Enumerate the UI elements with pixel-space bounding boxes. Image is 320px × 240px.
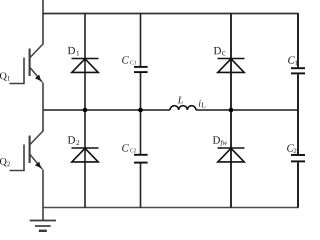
wire: middle rail left segment [43,109,171,111]
Q2 collector diagonal [30,131,43,145]
svg-text:C2: C2 [130,148,137,154]
svg-text:C1: C1 [130,60,137,66]
wire: bottom rail [43,207,299,209]
Q2 gate lead [10,170,25,172]
Q2 emitter wire down to ground [42,170,44,221]
Q2 emitter diagonal [30,155,42,170]
Q2 emitter arrowhead [35,162,41,169]
wire: Cc1 to middle rail [140,73,142,110]
wire: right vertical upper [297,14,299,68]
ground [30,221,56,231]
diode Dc [218,59,245,73]
Q2 body bar [29,136,31,164]
diode D2 [72,148,99,162]
svg-text:D1: D1 [68,45,80,57]
diode Dfw [218,148,245,162]
wire: middle rail right segment [196,109,299,111]
capacitor Cc2 [134,155,148,163]
wire: Dfw branch vertical [230,110,232,208]
wire: D2 branch vertical [84,110,86,208]
node at D1/D2 junction [83,108,88,113]
svg-text:D2: D2 [67,135,79,147]
wire: D1 branch vertical [84,14,86,111]
capacitor C1 [291,68,305,73]
wire: left vertical supply lead above top rail and Q1 collector [42,0,44,45]
Q1 gate bar [23,58,25,85]
capacitor C2 [291,155,305,161]
node at Cc1/Cc2 junction [138,108,143,113]
capacitor Cc1 [134,67,148,72]
Q2 gate bar [23,145,25,172]
wire: right vertical middle [297,74,299,154]
transistor Q2 (IGBT) [10,131,44,221]
wire: Dc branch vertical [230,14,232,111]
svg-text:L: L [177,95,184,106]
Q1 collector diagonal [30,44,43,58]
Q1 body bar [29,49,31,77]
svg-text:Q2: Q2 [0,157,11,168]
Q1 emitter arrowhead [35,75,41,82]
diode D1 [72,59,99,73]
wire: Cc1 branch upper [140,14,142,67]
svg-text:Dfw: Dfw [212,135,227,147]
wire: Cc2 branch upper [140,110,142,154]
Q1 emitter wire down to Q2 collector [42,83,44,132]
Q1 gate lead [10,83,25,85]
svg-text:Q1: Q1 [0,71,10,82]
inductor L [170,106,196,110]
wire: right vertical lower [297,162,299,207]
svg-text:C: C [122,54,130,66]
svg-text:L: L [201,100,206,109]
wire: Cc2 to bottom rail [140,164,142,208]
node at Dc/Dfw junction [229,108,234,113]
transistor Q1 (IGBT) [10,44,44,132]
wire: top rail [43,13,299,15]
svg-text:Dc: Dc [214,45,226,57]
svg-text:1: 1 [294,59,298,67]
svg-text:C: C [121,142,129,154]
svg-text:2: 2 [293,147,297,155]
Q1 emitter diagonal [30,68,42,83]
